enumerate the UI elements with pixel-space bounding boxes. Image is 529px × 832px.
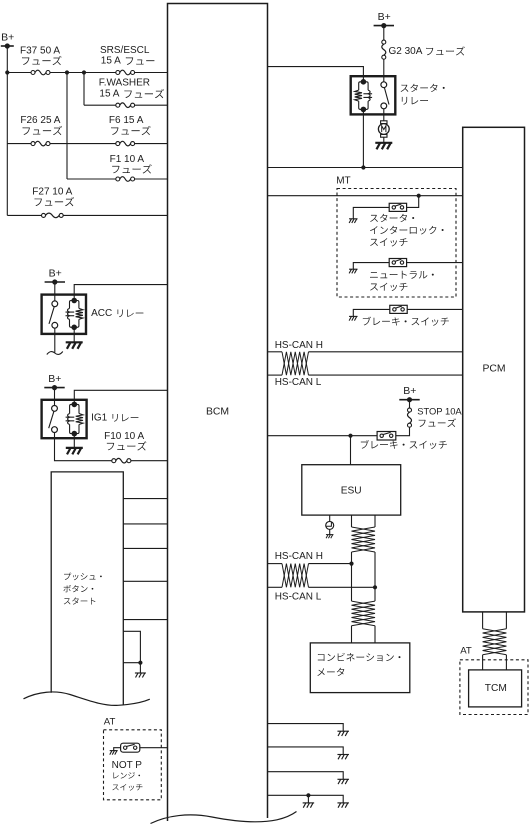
fuse F37 50 A: [31, 71, 35, 75]
wire BCM to PCM (starter interlock): [268, 195, 463, 197]
wire pair to meter left: [351, 626, 353, 643]
svg-text:AT: AT: [104, 716, 116, 727]
label brake switch: [363, 317, 449, 326]
ground BCM 2: [337, 754, 349, 756]
wire ESU shield: [329, 515, 331, 521]
dashed box AT group (NOT P): [104, 730, 162, 800]
wire PCM to TCM pair left: [482, 612, 484, 629]
wire B+ feed vertical: [6, 46, 8, 215]
wire HS-CAN L upper left: [268, 374, 283, 376]
wire HS-CAN L upper right: [309, 374, 463, 376]
wire BCM ground 1: [268, 724, 344, 732]
node junction interlock branch: [417, 194, 421, 198]
wire row3 to BCM: [135, 143, 168, 145]
wire BCM ground 4: [268, 795, 344, 803]
svg-text:ESU: ESU: [341, 486, 362, 497]
motor M (starter): [381, 121, 387, 124]
wire HS-CAN L lower right: [309, 586, 376, 588]
switch brake (stop lamp): [377, 432, 396, 441]
wire push-button to BCM 2: [123, 523, 167, 525]
svg-text:SRS/ESCL: SRS/ESCL: [100, 45, 150, 56]
wire vertical x84 (row1 to F.WASHER row): [83, 73, 85, 106]
svg-text:F27 10 A: F27 10 A: [32, 187, 72, 198]
wire starter coil to PCM line: [362, 109, 364, 167]
wire row1 to BCM: [135, 72, 168, 74]
wire row1 mid: [50, 72, 116, 74]
wire brake switch to PCM: [407, 308, 463, 310]
ground BCM 3: [337, 778, 349, 780]
module BCM box (open bottom): [168, 4, 268, 822]
wire IG1 coil to ground: [73, 434, 75, 448]
svg-text:ACC: ACC: [91, 308, 112, 319]
switch contacts IG1 relay: [52, 406, 58, 412]
switch contacts starter relay: [381, 82, 387, 88]
wire push-button to BCM 4: [123, 580, 167, 582]
wire twisted pair ESU down left: [351, 515, 353, 527]
node junction F37 row: [5, 70, 9, 74]
dashed box MT group: [337, 189, 456, 298]
dashed box AT group (TCM): [460, 660, 528, 715]
fuse SRS/ESCL 15 A: [116, 71, 120, 75]
svg-text:15 A: 15 A: [99, 89, 119, 100]
wire twisted pair ESU down right: [374, 515, 376, 527]
fuse F27 10 A: [42, 213, 46, 217]
svg-text:B+: B+: [49, 268, 62, 280]
node junction starter coil / PCM wire: [361, 165, 365, 169]
wire HS-CAN H lower right: [309, 563, 352, 565]
svg-text:F.WASHER: F.WASHER: [99, 78, 150, 89]
wire HS-CAN H upper left: [268, 351, 283, 353]
wire push-button ground loop bottom: [123, 662, 140, 664]
wire STOP fuse to brake switch: [396, 427, 410, 436]
ground BCM 1: [337, 730, 349, 732]
continuation wave (push-button bottom): [24, 692, 150, 705]
wire F1 row: [67, 178, 116, 180]
label neutral switch: [370, 271, 434, 279]
wire B+ to fuse G2: [383, 26, 385, 40]
wire push-button to BCM 3: [123, 547, 167, 549]
wire ACC coil to BCM: [74, 285, 167, 301]
wire IG1 coil to BCM: [74, 390, 167, 404]
ground starter motor: [375, 142, 392, 144]
ground starter interlock switch: [349, 218, 358, 220]
fuse F6 15 A: [116, 142, 120, 146]
ground push-button: [135, 672, 146, 674]
ground ACC relay: [66, 341, 83, 343]
wire BCM to PCM (starter control): [268, 167, 463, 169]
wire junction to ESU: [350, 436, 352, 465]
wire BCM to starter relay coil: [268, 67, 364, 82]
wire NOT P switch to ground: [114, 748, 121, 751]
switch NOT P range: [121, 743, 140, 752]
wire BCM ground 2: [268, 747, 344, 755]
wire brake switch to BCM: [268, 435, 378, 437]
fuse F10 10 A: [112, 459, 116, 463]
svg-text:BCM: BCM: [206, 407, 229, 418]
svg-text:HS-CAN H: HS-CAN H: [275, 340, 323, 351]
wire BCM ground 3: [268, 772, 344, 780]
continuation squiggle ACC output: [47, 352, 63, 355]
wire F27 row: [7, 214, 41, 216]
module TCM box: [469, 670, 522, 707]
node junction ground loop: [138, 661, 142, 665]
wire pair to TCM left: [482, 655, 484, 670]
wire push-button ground loop top: [123, 631, 140, 662]
wire B+ to ACC relay box: [54, 282, 56, 301]
relay IG1 box: [42, 400, 87, 438]
module ESU box: [302, 465, 401, 515]
wire pair right mid: [374, 552, 376, 601]
fuse F26 25 A: [31, 142, 35, 146]
coil starter relay: [361, 79, 367, 85]
wire NOT P switch to BCM: [140, 747, 168, 749]
label brake switch (stop lamp): [361, 440, 447, 449]
svg-text:B+: B+: [378, 11, 391, 23]
relay ACC box: [42, 295, 86, 334]
label starter relay: [401, 84, 445, 92]
node junction ground wire 4: [306, 793, 310, 797]
wire F.WASHER row: [84, 104, 116, 106]
node junction A (x67): [65, 70, 69, 74]
ground neutral switch: [349, 268, 358, 270]
wire HS-CAN H upper right: [309, 351, 463, 353]
wire F27 row to BCM: [63, 214, 167, 216]
fuse F1 10 A: [116, 177, 120, 181]
twisted pair HS-CAN lower: [282, 564, 309, 588]
svg-text:F26 25 A: F26 25 A: [20, 115, 60, 126]
switch starter interlock: [389, 203, 406, 211]
wire fuse G2 to starter relay: [383, 59, 385, 82]
wire starter switch to motor: [383, 109, 385, 121]
wire B+ to IG1 relay box: [54, 388, 56, 406]
wire brake switch to ground: [353, 309, 390, 316]
wire motor to ground: [383, 137, 385, 143]
wire HS-CAN L lower left: [268, 586, 283, 588]
wire vertical x67 (row1 to F1 row): [66, 73, 68, 180]
svg-text:15 A: 15 A: [101, 56, 121, 67]
wire push-button to BCM 5: [123, 619, 167, 621]
node junction brake/ESU: [348, 434, 352, 438]
svg-text:F10 10 A: F10 10 A: [104, 431, 144, 442]
module PCM box: [463, 127, 525, 612]
svg-text:PCM: PCM: [482, 364, 505, 375]
continuation wave (BCM bottom): [151, 812, 297, 824]
ground BCM 4: [337, 802, 349, 804]
ground BCM extra: [303, 802, 315, 804]
shield symbol (ESU): [326, 521, 334, 529]
wire ACC switch output (continuation): [54, 328, 56, 352]
wire branch to interlock switch: [407, 196, 419, 208]
wire F.WASHER to BCM: [135, 104, 168, 106]
wire push-button to BCM 1: [123, 498, 167, 500]
wire F26/F6 row: [7, 143, 31, 145]
wire to ground (push-button): [139, 663, 141, 673]
wire pair to TCM right: [505, 655, 507, 670]
wire shield to ground: [329, 530, 331, 535]
twisted pair HS-CAN upper: [282, 352, 309, 375]
wire pair left mid: [351, 552, 353, 601]
svg-text:F6 15 A: F6 15 A: [109, 115, 144, 126]
wire IG1 switch to fuse F10: [55, 433, 112, 461]
svg-text:NOT P: NOT P: [112, 760, 143, 771]
label push-button start: [64, 573, 102, 581]
coil IG1 relay: [72, 402, 78, 408]
wire F1 row to BCM: [135, 178, 168, 180]
svg-text:MT: MT: [336, 176, 350, 187]
switch neutral: [389, 259, 406, 267]
svg-text:HS-CAN H: HS-CAN H: [275, 551, 323, 562]
ground brake switch: [349, 315, 358, 317]
svg-text:IG1: IG1: [91, 413, 108, 424]
wire junction to ground: [307, 795, 309, 803]
wire row3 mid: [50, 143, 116, 145]
wire HS-CAN H lower left: [268, 563, 283, 565]
module combination meter box: [310, 643, 410, 693]
svg-text:B+: B+: [403, 385, 416, 397]
node junction B (x84): [82, 70, 86, 74]
wire B+ to STOP fuse: [409, 400, 411, 408]
ground ESU shield: [326, 534, 334, 536]
push-button start unit box (open bottom): [51, 472, 123, 705]
twisted pair meter lower: [352, 601, 376, 626]
twisted pair PCM-TCM: [483, 629, 507, 655]
label starter interlock switch: [370, 214, 414, 222]
svg-text:F1 10 A: F1 10 A: [110, 154, 145, 165]
wire ACC coil to ground: [73, 327, 75, 342]
wire F10 to BCM: [131, 460, 168, 462]
wire row1 to fuse F37: [7, 72, 31, 74]
wire PCM to TCM pair right: [505, 612, 507, 629]
wire pair to meter right: [374, 626, 376, 643]
relay starter box: [351, 76, 396, 114]
wire neutral switch to PCM: [407, 262, 463, 264]
svg-text:HS-CAN L: HS-CAN L: [275, 377, 322, 388]
fuse G2 30A (vertical): [382, 40, 386, 44]
fuse F.WASHER 15 A: [116, 103, 120, 107]
svg-text:TCM: TCM: [485, 683, 507, 694]
coil ACC relay: [71, 298, 77, 304]
ground NOT P switch: [110, 750, 118, 752]
node junction CAN H / pair: [349, 562, 353, 566]
svg-text:B+: B+: [1, 32, 14, 44]
node junction CAN L / pair: [373, 585, 377, 589]
svg-text:AT: AT: [460, 646, 472, 657]
wire neutral switch to ground: [353, 263, 389, 270]
fuse STOP 10A (vertical): [408, 408, 412, 412]
svg-text:HS-CAN L: HS-CAN L: [275, 592, 322, 603]
switch contacts ACC relay: [52, 301, 58, 307]
twisted pair ESU-meter upper: [352, 527, 376, 552]
svg-text:B+: B+: [48, 373, 61, 385]
svg-text:F37 50 A: F37 50 A: [20, 45, 60, 56]
wire interlock switch to ground: [353, 207, 389, 218]
switch brake (MT side): [390, 305, 407, 313]
svg-text:STOP 10A: STOP 10A: [417, 405, 462, 416]
ground IG1 relay: [66, 447, 83, 449]
svg-text:G2 30A: G2 30A: [389, 46, 423, 57]
